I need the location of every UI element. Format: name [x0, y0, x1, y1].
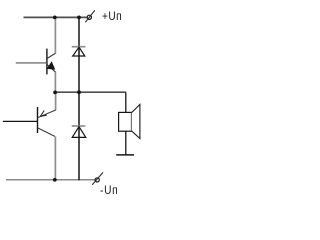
wire middle output rail to speaker	[55, 91, 126, 93]
node dot bottom rail / VT2 collector	[53, 178, 57, 182]
node dot output / emitters	[53, 91, 57, 95]
terminal -U	[92, 172, 103, 184]
node dot top rail / VT1 collector	[53, 16, 57, 20]
ground bar under speaker	[116, 154, 134, 156]
wire top +U rail	[24, 16, 88, 18]
wire emitter VT2 vertical	[55, 92, 57, 110]
node dot top rail / diode chain	[77, 16, 81, 20]
wire bottom -U rail	[6, 179, 95, 181]
wire diode chain vertical	[78, 17, 80, 180]
diode VD1	[72, 47, 86, 56]
transistor VT1 (top NPN)	[16, 49, 56, 75]
label +Un	[102, 9, 122, 23]
node dot output / diode chain	[77, 90, 81, 94]
diode VD2	[72, 126, 86, 137]
wire collector VT2 vertical	[54, 136, 56, 179]
terminal +U	[85, 10, 95, 22]
speaker BA1	[119, 92, 140, 155]
wire emitter VT1 vertical	[54, 72, 56, 93]
wire collector VT1 vertical	[54, 17, 56, 53]
label -Un	[100, 183, 118, 197]
transistor VT2 (bottom PNP)	[3, 107, 56, 136]
